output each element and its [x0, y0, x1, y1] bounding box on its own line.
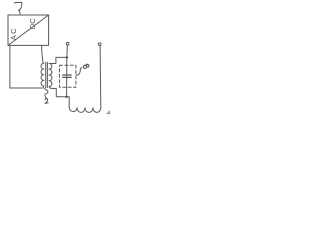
wire: converter bottom-right down to primary top: [42, 45, 43, 63]
terminal -: open circle top right: [98, 43, 101, 46]
terminal +: open circle top: [66, 42, 69, 45]
label 4 (near coil end): [107, 111, 111, 114]
label 7 (leader to converter): [14, 2, 21, 14]
capacitor C1 plates: [63, 74, 72, 76]
wire: inductor up to terminal -: [99, 46, 102, 108]
wire: secondary bottom to node B: [50, 88, 66, 97]
node A (junction dot): [66, 56, 69, 59]
wire: vertical through filter to node B: [66, 57, 68, 96]
wire: secondary top to node A: [50, 57, 67, 63]
svg-text:AC: AC: [9, 27, 18, 40]
label 6 (leader from filter box): [76, 68, 82, 75]
transformer T1 secondary winding: [49, 63, 52, 88]
label 2 (leader below transformer): [44, 89, 48, 104]
wire: terminal + stub down to node A: [66, 45, 68, 57]
wire: node B to inductor: [67, 97, 70, 108]
transformer T1 primary winding: [41, 63, 44, 88]
filter enclosure (dashed box): [60, 65, 76, 87]
node B (junction dot): [65, 95, 68, 98]
ac-dc converter U1: [8, 15, 49, 45]
transformer T1 core: [45, 62, 47, 87]
inductor L1 coil: [69, 107, 101, 112]
svg-text:DC: DC: [28, 18, 37, 29]
wire: converter bottom-left down and right to primary bottom: [10, 45, 42, 88]
